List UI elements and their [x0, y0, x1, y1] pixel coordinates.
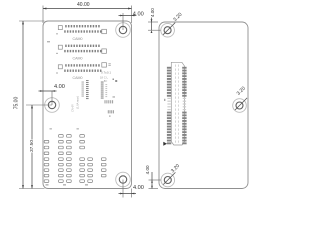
svg-text:CN-0Y: CN-0Y [70, 104, 74, 112]
svg-text:40.00: 40.00 [77, 2, 90, 8]
svg-text:4.00: 4.00 [133, 11, 144, 17]
svg-text:4.00: 4.00 [54, 84, 65, 90]
svg-text:CAM0: CAM0 [73, 57, 83, 61]
svg-text:CAM0: CAM0 [73, 76, 83, 80]
svg-text:0.7±0.1: 0.7±0.1 [101, 70, 111, 74]
svg-text:4.00: 4.00 [150, 8, 155, 17]
svg-text:CAM0: CAM0 [73, 37, 83, 41]
svg-text:37.50: 37.50 [29, 140, 35, 152]
svg-text:4.00: 4.00 [145, 165, 150, 174]
svg-text:(1.0A max): (1.0A max) [75, 96, 79, 109]
svg-text:4.00: 4.00 [133, 185, 144, 191]
svg-text:75.00: 75.00 [13, 97, 19, 110]
svg-text:B=: B= [104, 79, 108, 83]
